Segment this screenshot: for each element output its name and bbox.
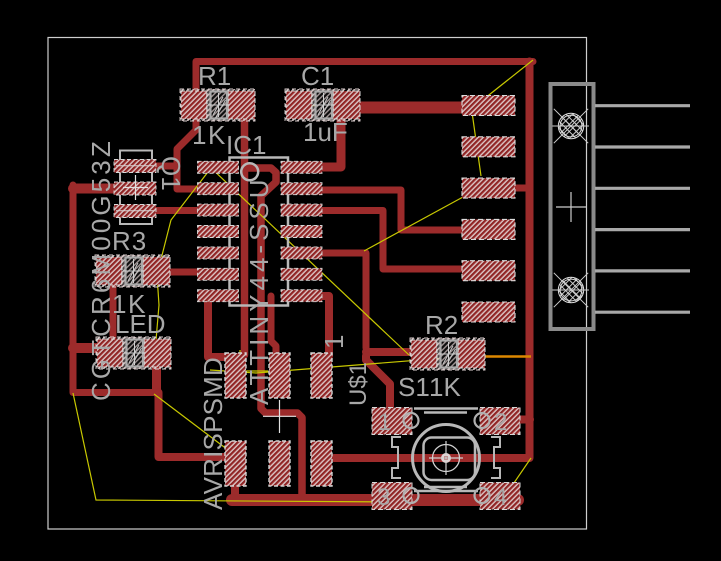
- svg-text:U$1: U$1: [345, 362, 372, 406]
- svg-text:R3: R3: [112, 226, 147, 256]
- svg-text:C1: C1: [301, 61, 334, 91]
- svg-text:R2: R2: [425, 310, 458, 340]
- svg-text:1: 1: [378, 409, 391, 436]
- svg-text:LED: LED: [115, 309, 166, 339]
- svg-text:1uF: 1uF: [303, 117, 348, 147]
- svg-text:Q1: Q1: [156, 156, 186, 191]
- svg-text:IC1: IC1: [226, 130, 266, 160]
- svg-text:R1: R1: [198, 61, 231, 91]
- svg-text:AVRISPSMD: AVRISPSMD: [198, 357, 228, 510]
- svg-text:S1: S1: [398, 372, 430, 402]
- svg-text:CGTCR6M00G53Z: CGTCR6M00G53Z: [86, 138, 116, 401]
- svg-text:1K: 1K: [192, 120, 227, 150]
- svg-text:ATTINY44-SSU: ATTINY44-SSU: [244, 175, 274, 405]
- svg-text:1K: 1K: [429, 372, 461, 402]
- svg-text:3: 3: [377, 484, 390, 511]
- svg-text:1: 1: [319, 335, 349, 349]
- svg-text:4: 4: [494, 484, 507, 511]
- svg-text:2: 2: [494, 409, 507, 436]
